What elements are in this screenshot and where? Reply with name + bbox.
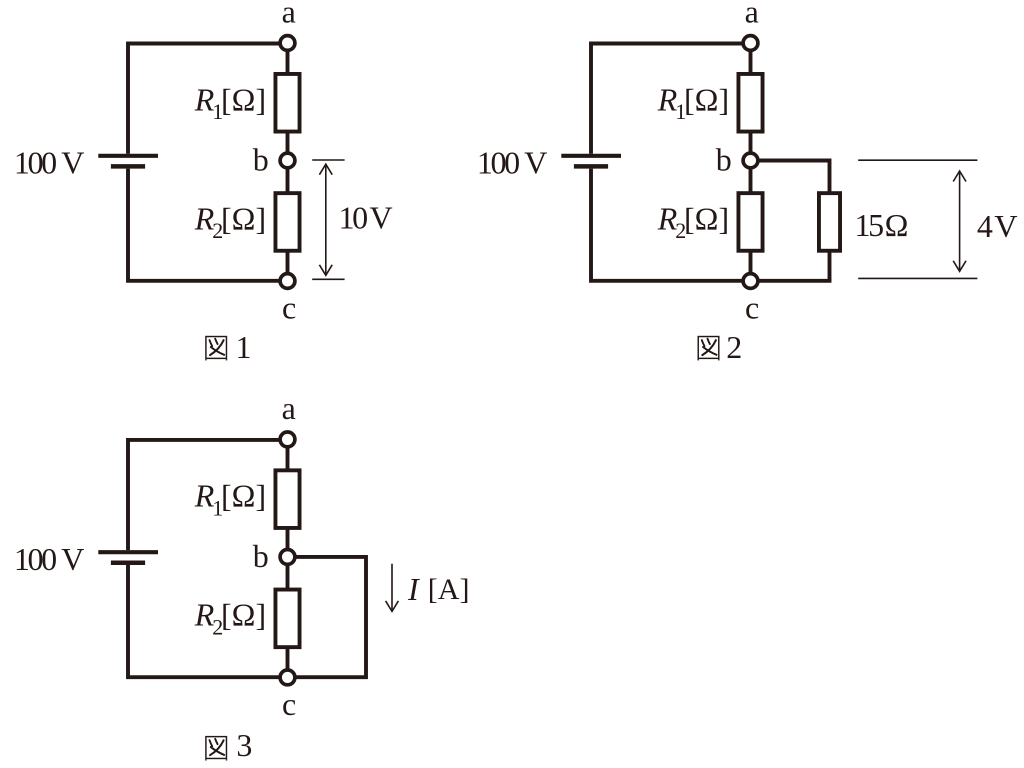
svg-text:[Ω]: [Ω]	[684, 81, 729, 117]
svg-text:[A]: [A]	[428, 573, 470, 606]
svg-text:[Ω]: [Ω]	[221, 200, 266, 236]
svg-text:[Ω]: [Ω]	[221, 597, 266, 633]
svg-text:Ω: Ω	[885, 207, 909, 243]
svg-text:1: 1	[236, 329, 252, 365]
svg-text:V: V	[61, 145, 84, 181]
svg-text:a: a	[745, 0, 759, 30]
svg-text:[Ω]: [Ω]	[221, 81, 266, 117]
svg-text:V: V	[61, 541, 84, 577]
svg-text:15: 15	[855, 207, 884, 243]
svg-text:3: 3	[236, 727, 252, 763]
svg-text:4: 4	[977, 208, 993, 244]
svg-text:V: V	[370, 199, 393, 235]
svg-text:b: b	[253, 538, 269, 574]
svg-text:c: c	[282, 686, 296, 722]
svg-text:100: 100	[14, 541, 56, 577]
svg-text:c: c	[745, 289, 759, 325]
svg-text:V: V	[994, 208, 1017, 244]
svg-text:c: c	[282, 289, 296, 325]
svg-text:100: 100	[477, 145, 519, 181]
svg-text:b: b	[716, 142, 732, 178]
svg-text:100: 100	[14, 145, 56, 181]
svg-text:b: b	[253, 142, 269, 178]
svg-text:[Ω]: [Ω]	[221, 478, 266, 514]
svg-text:a: a	[282, 390, 296, 426]
svg-text:2: 2	[726, 329, 742, 365]
svg-text:a: a	[282, 0, 296, 30]
svg-text:V: V	[524, 145, 547, 181]
svg-text:[Ω]: [Ω]	[684, 200, 729, 236]
svg-text:I: I	[407, 571, 420, 607]
svg-text:10: 10	[339, 199, 368, 235]
